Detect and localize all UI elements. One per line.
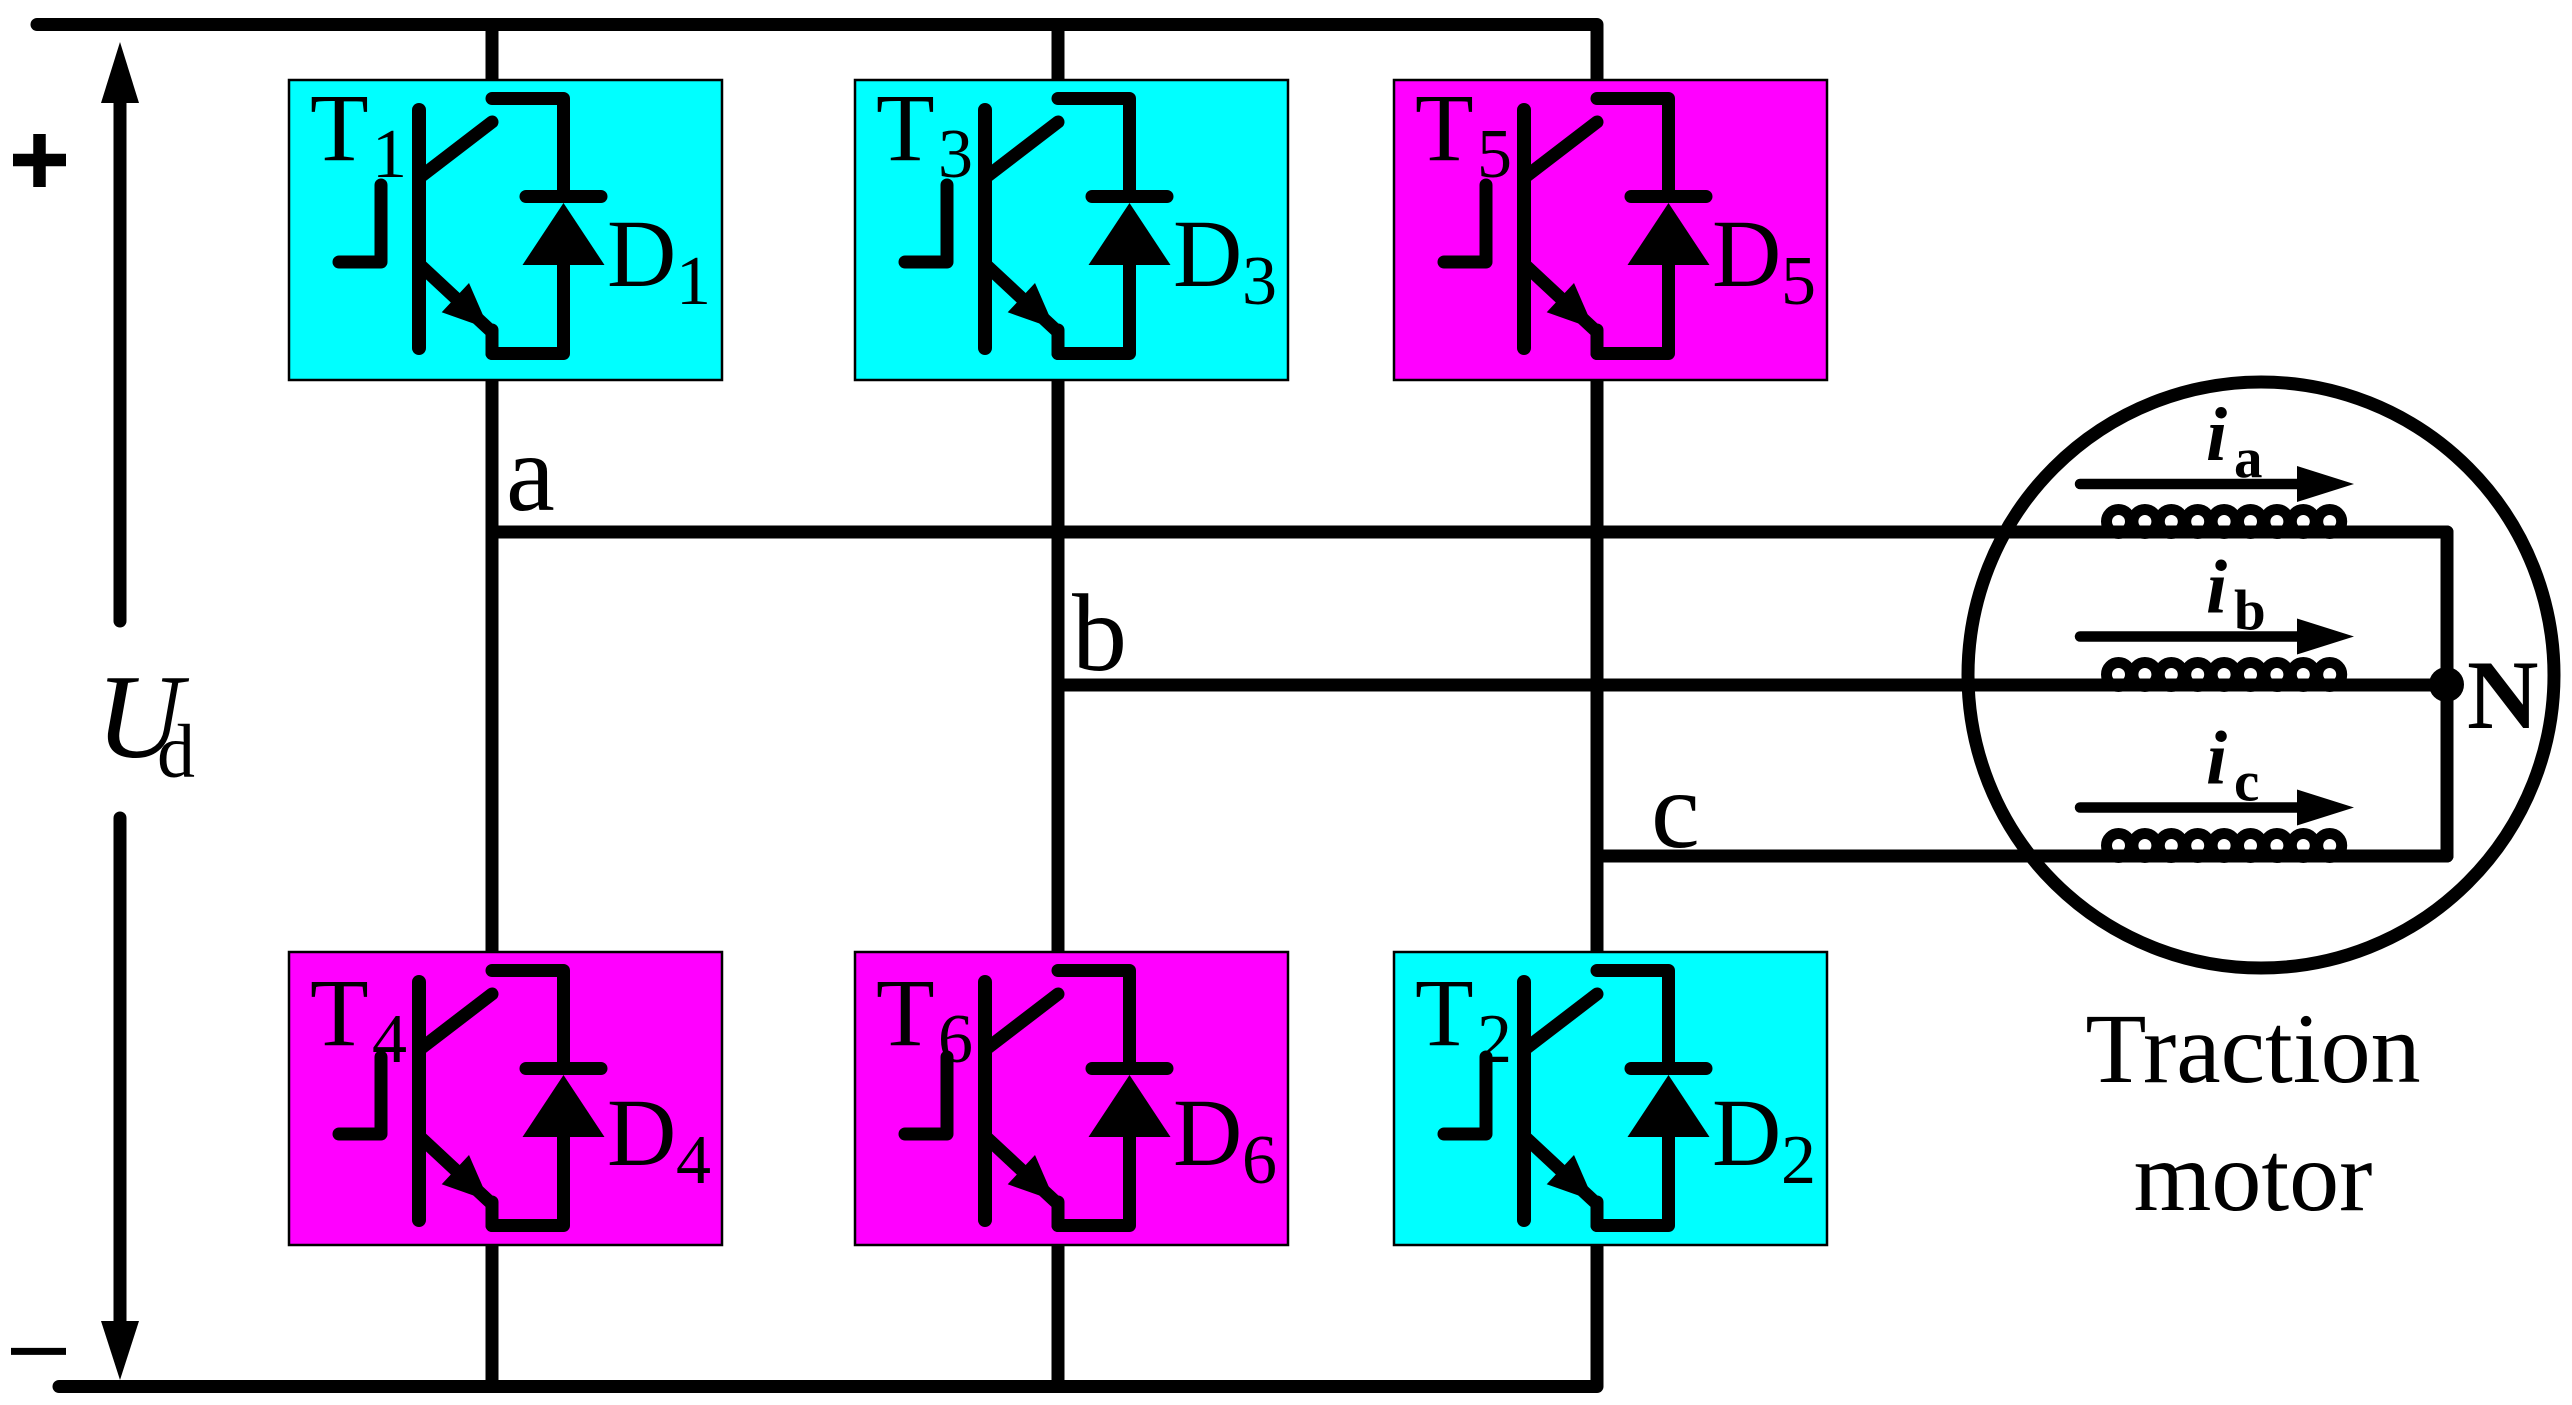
svg-text:D: D <box>1712 1079 1781 1186</box>
svg-text:i: i <box>2206 717 2227 801</box>
svg-text:d: d <box>157 710 195 794</box>
svg-text:a: a <box>2234 427 2263 490</box>
svg-text:D: D <box>607 200 676 307</box>
svg-text:4: 4 <box>372 1001 407 1078</box>
svg-text:6: 6 <box>1242 1122 1277 1199</box>
svg-text:N: N <box>2467 641 2539 750</box>
svg-text:T: T <box>310 74 369 181</box>
svg-text:D: D <box>607 1079 676 1186</box>
svg-text:i: i <box>2206 393 2227 477</box>
svg-text:a: a <box>506 412 555 534</box>
svg-text:2: 2 <box>1477 1001 1512 1078</box>
svg-text:3: 3 <box>1242 243 1277 320</box>
svg-text:2: 2 <box>1781 1122 1816 1199</box>
svg-text:motor: motor <box>2134 1121 2373 1232</box>
svg-text:4: 4 <box>676 1122 711 1199</box>
svg-text:c: c <box>2234 751 2259 814</box>
svg-text:1: 1 <box>676 243 711 320</box>
svg-text:3: 3 <box>938 116 973 193</box>
svg-text:T: T <box>876 74 935 181</box>
svg-text:D: D <box>1173 200 1242 307</box>
svg-text:D: D <box>1712 200 1781 307</box>
svg-text:c: c <box>1651 749 1700 871</box>
svg-text:5: 5 <box>1477 116 1512 193</box>
svg-text:i: i <box>2206 546 2227 630</box>
svg-text:b: b <box>2234 580 2266 643</box>
svg-text:6: 6 <box>938 1001 973 1078</box>
svg-text:b: b <box>1072 572 1127 694</box>
svg-text:T: T <box>310 959 369 1066</box>
svg-text:D: D <box>1173 1079 1242 1186</box>
svg-text:T: T <box>1415 959 1474 1066</box>
svg-text:Traction: Traction <box>2085 993 2420 1104</box>
svg-text:1: 1 <box>372 116 407 193</box>
svg-text:5: 5 <box>1781 243 1816 320</box>
svg-text:T: T <box>876 959 935 1066</box>
svg-text:T: T <box>1415 74 1474 181</box>
